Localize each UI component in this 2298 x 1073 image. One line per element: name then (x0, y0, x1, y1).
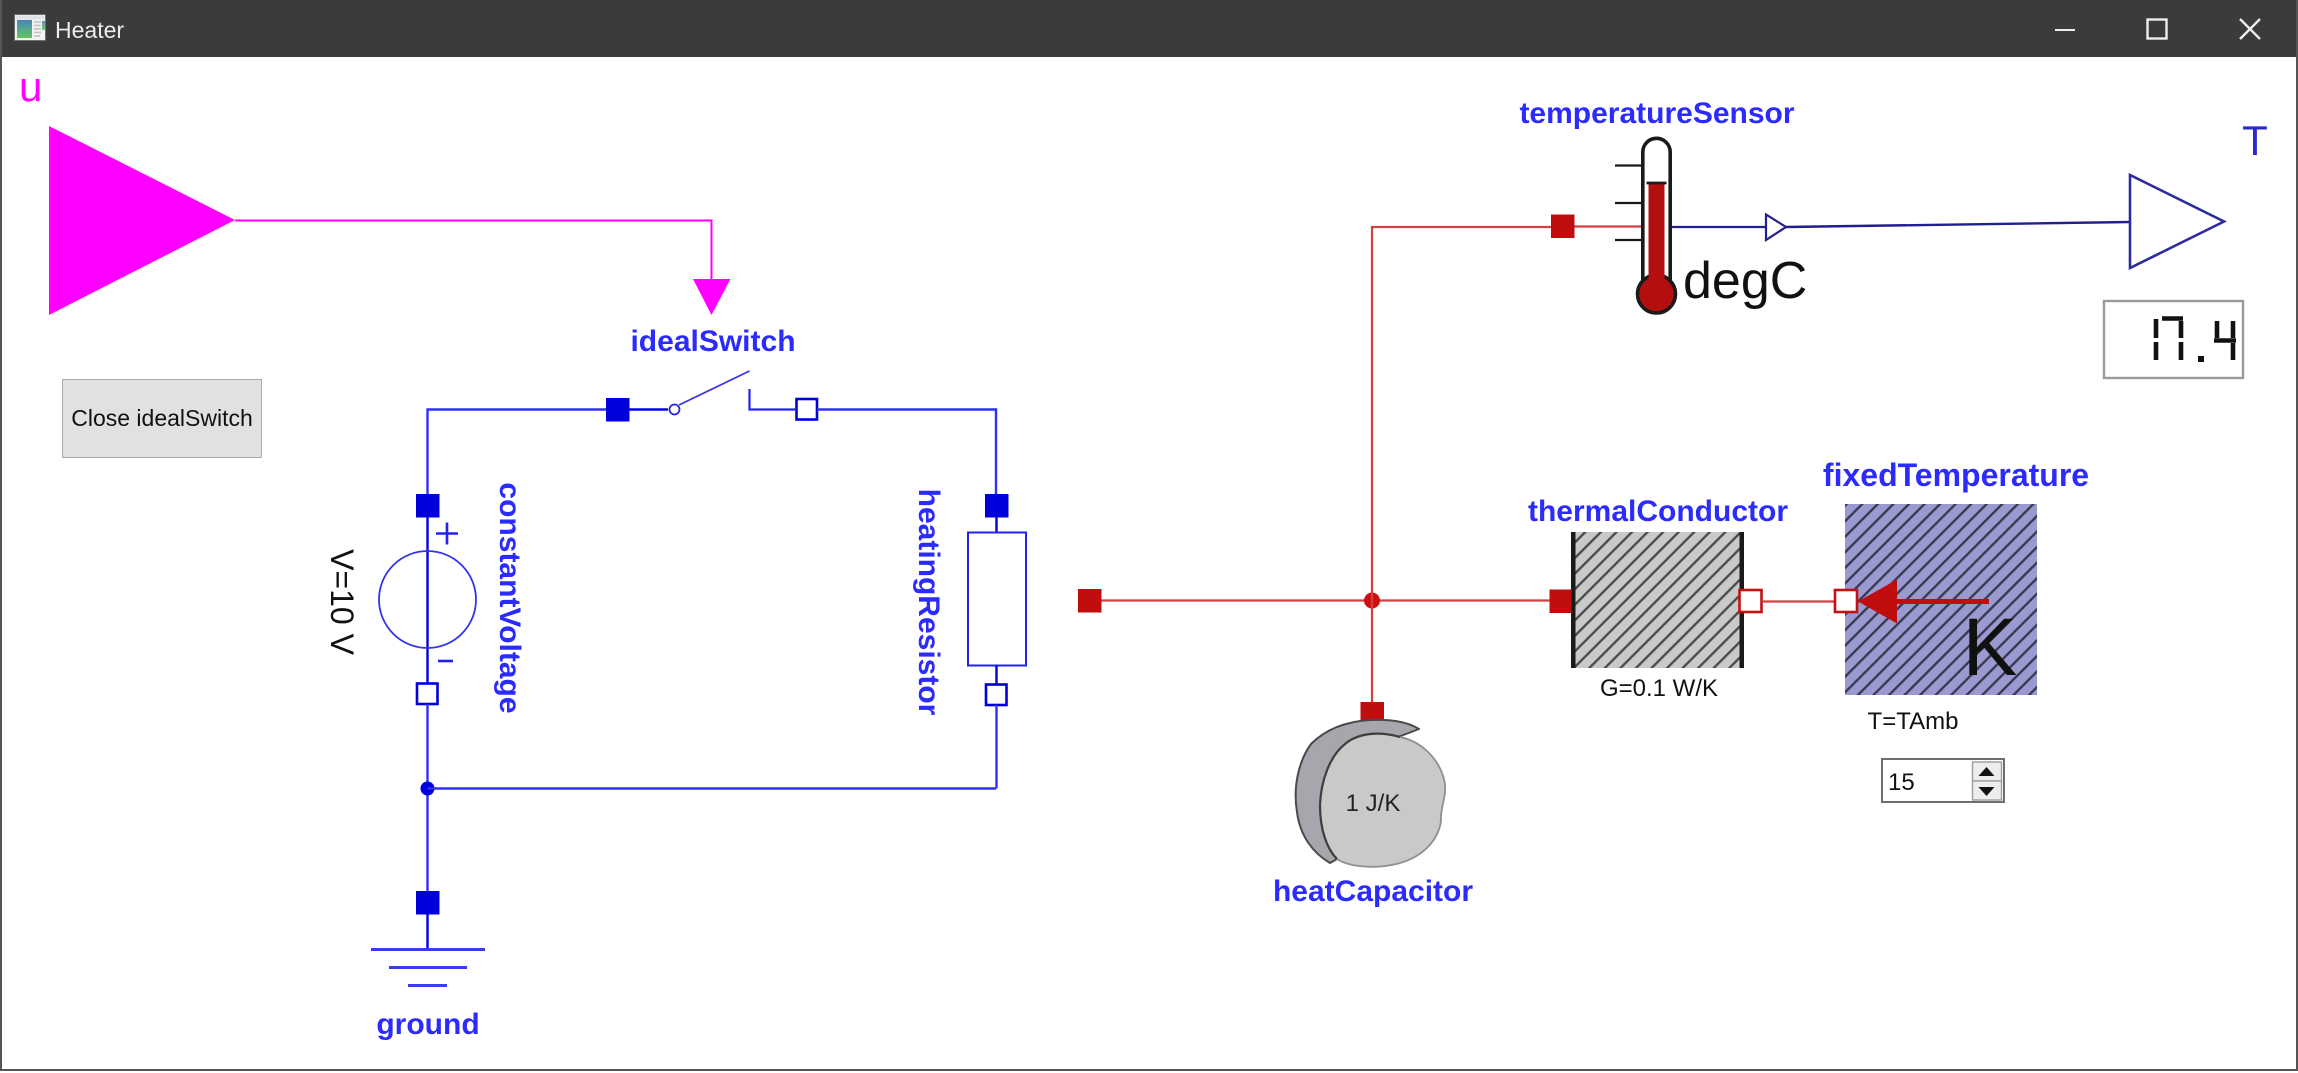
red junction node (1364, 593, 1380, 609)
thermometer red column top edge (1647, 182, 1667, 185)
thermometer bulb (1638, 275, 1676, 313)
svg-text:fixedTemperature: fixedTemperature (1823, 457, 2089, 493)
maximize button (2146, 18, 2170, 42)
seven-segment digit 1 (2154, 319, 2159, 360)
arrowhead magenta into idealSwitch (693, 279, 731, 315)
constantVoltage pin p square (416, 494, 440, 518)
thermalConductor port b open square (1740, 590, 1762, 612)
input source triangle (u signal) (49, 126, 235, 315)
spinbox up button (1973, 762, 2002, 781)
ground bar 3 (408, 984, 447, 987)
heatCapacitor rim band (1296, 720, 1419, 863)
resistor R1 body (968, 533, 1026, 666)
wire heatPort to thermalConductor (red) (1102, 599, 1551, 601)
spinbox down button (1973, 781, 2002, 800)
heatingResistor heatPort square (1078, 589, 1102, 613)
signal line T continued (1786, 222, 2130, 227)
switch S1 pin line (630, 408, 669, 410)
svg-text:degC: degC (1683, 252, 1807, 310)
heatCapacitor port square (1361, 702, 1385, 726)
fixedTemperature hatched box (1845, 504, 2037, 695)
thermalConductor hatched box G1 (1571, 532, 1744, 668)
thermalConductor left bar (1571, 532, 1576, 668)
svg-text:idealSwitch: idealSwitch (630, 325, 795, 358)
seven-segment decimal point (2198, 356, 2204, 362)
svg-text:G=0.1 W/K: G=0.1 W/K (1600, 675, 1718, 702)
svg-text:K: K (1963, 602, 2018, 693)
constantVoltage pin axis line (426, 517, 428, 683)
wire magenta signal u to idealSwitch (235, 221, 712, 281)
seven-segment digit 7 (2162, 319, 2183, 361)
wire heatingResistor.n down (995, 705, 997, 789)
switch S1 lever (679, 371, 750, 405)
ground bar 1 (371, 948, 485, 951)
window title bar (0, 0, 2298, 57)
svg-text:heatingResistor: heatingResistor (912, 489, 945, 716)
seven-segment digit 4 (2214, 321, 2236, 360)
fixedTemperature port open square (1835, 590, 1857, 612)
title bar icon (14, 14, 47, 43)
constantVoltage minus sign (438, 660, 453, 663)
wire thermalConductor.b to fixedTemperature (red) (1762, 600, 1836, 602)
heatingResistor pin p square (985, 494, 1009, 518)
ground pin line (426, 914, 428, 948)
minimize button (2054, 18, 2078, 42)
display box for T value (2104, 301, 2243, 378)
svg-text:heatCapacitor: heatCapacitor (1273, 875, 1473, 908)
heatingResistor pin line bottom (995, 666, 997, 685)
spinbox TAmb (1882, 759, 2004, 802)
thermometer tube (1643, 138, 1670, 294)
temperatureSensor port square (1551, 215, 1575, 239)
wire red junction up to temperatureSensor (1372, 227, 1551, 601)
close button (2239, 18, 2263, 42)
ground bar 2 (389, 966, 467, 969)
signal line T (dark blue) (1671, 226, 1766, 228)
switch S1 pivot circle (670, 405, 680, 415)
switch S1 pin n open square (797, 399, 818, 420)
wire bottom return heatingResistor.n to junction (428, 787, 997, 789)
svg-text:ground: ground (376, 1008, 479, 1041)
fixedTemperature arrow head (1858, 580, 1897, 624)
constantVoltage plus sign (436, 523, 458, 545)
heatingResistor pin n open square (986, 685, 1007, 706)
svg-text:thermalConductor: thermalConductor (1528, 495, 1788, 528)
spinbox down arrow (1979, 787, 1995, 796)
wire red junction down to heatCapacitor (1371, 601, 1373, 704)
open arrow on T signal (1766, 215, 1786, 241)
svg-text:constantVoltage: constantVoltage (493, 482, 526, 713)
output connector T triangle (2130, 175, 2224, 268)
thermometer ticks (1615, 166, 1641, 241)
thermometer red column (1649, 183, 1665, 295)
heatCapacitor body (1320, 734, 1445, 867)
junction node at constantVoltage.n (421, 782, 435, 796)
wire red into thermometer (1575, 225, 1644, 227)
svg-text:u: u (19, 63, 42, 110)
svg-text:temperatureSensor: temperatureSensor (1519, 97, 1794, 130)
wire constantVoltage.p to idealSwitch.p (428, 410, 607, 496)
fixedTemperature arrow stem (1890, 599, 1989, 604)
svg-text:T=TAmb: T=TAmb (1868, 708, 1959, 735)
heatingResistor pin line top (995, 517, 997, 532)
thermalConductor port a red square (overlap) (1550, 590, 1572, 614)
wire constantVoltage.n to ground / junction (426, 704, 428, 891)
heatCapacitor inner dark edge (1320, 734, 1400, 859)
svg-text:V=10 V: V=10 V (324, 549, 360, 656)
switch S1 pin p square (606, 398, 630, 422)
spinbox up arrow (1979, 767, 1995, 776)
switch S1 right stub (750, 389, 796, 410)
svg-text:T: T (2242, 117, 2268, 164)
wire idealSwitch.n to heatingResistor.p (817, 410, 996, 496)
svg-text:1 J/K: 1 J/K (1346, 790, 1401, 817)
ground pin square (416, 891, 440, 915)
svg-text:15: 15 (1888, 769, 1915, 796)
button Close idealSwitch (62, 379, 262, 458)
constantVoltage pin n open square (417, 684, 438, 705)
thermalConductor right bar (1740, 532, 1745, 668)
constantVoltage circle V1 (379, 551, 476, 648)
